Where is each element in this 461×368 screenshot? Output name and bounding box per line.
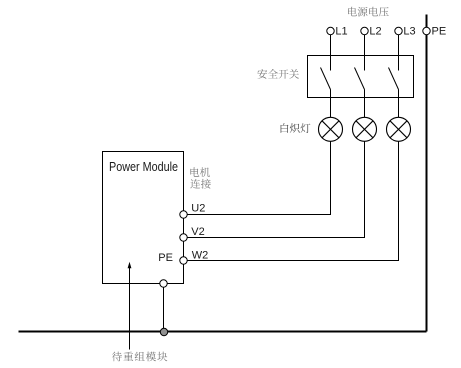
wire: switch S2 to lamp [364,90,366,118]
terminal L3 [395,27,402,34]
svg-text:V2: V2 [191,226,204,238]
wire: module PE to ground bus [163,287,165,331]
terminal PE [423,27,430,34]
svg-text:PE: PE [158,252,173,264]
terminal U2 [180,211,187,218]
terminal L1 [327,27,334,34]
wire: L2 drop into switch [364,35,366,71]
wire: switch S3 to lamp [398,90,400,118]
wire: lamp to U2 row [184,141,331,214]
svg-text:PE: PE [432,26,447,38]
svg-text:W2: W2 [192,249,209,261]
wire: PE/ground bus horizontal [19,331,427,333]
power module box U1 [103,152,184,284]
wire: lamp to V2 row [184,141,365,237]
wire: PE bus vertical [426,15,428,332]
switch S1 blade [321,68,331,90]
label 电源电压 (supply voltage) [348,7,389,17]
terminal W2 [180,257,187,264]
wire: L3 drop into switch [398,35,400,71]
arrow: module to be regrouped pointer [129,264,131,350]
svg-text:L3: L3 [403,26,415,38]
safety switch box [308,56,414,98]
svg-text:L2: L2 [369,26,381,38]
label 电机连接 (motor connection) line1 [190,167,210,177]
label 白炽灯 (incandescent lamp) [281,123,311,133]
svg-text:U2: U2 [191,203,205,215]
label 待重组模块 (module to be regrouped) [112,352,167,362]
terminal V2 [180,234,187,241]
label 电机连接 (motor connection) line2 [190,179,210,189]
lamp E1 (circle with X) [319,117,343,141]
lamp E2 (circle with X) [353,117,377,141]
wire: lamp to W2 row [184,141,399,260]
svg-text:Power Module: Power Module [109,159,178,174]
lamp E3 (circle with X) [387,117,411,141]
label 安全开关 (safety switch) [257,69,299,79]
svg-text:L1: L1 [335,26,347,38]
switch S3 blade [389,68,399,90]
terminal PE (module bottom) [160,280,167,287]
wire: switch S1 to lamp [330,90,332,118]
switch S2 blade [355,68,365,90]
terminal L2 [361,27,368,34]
wire: L1 drop into switch [330,35,332,71]
junction: PE/ground bus [160,328,167,335]
